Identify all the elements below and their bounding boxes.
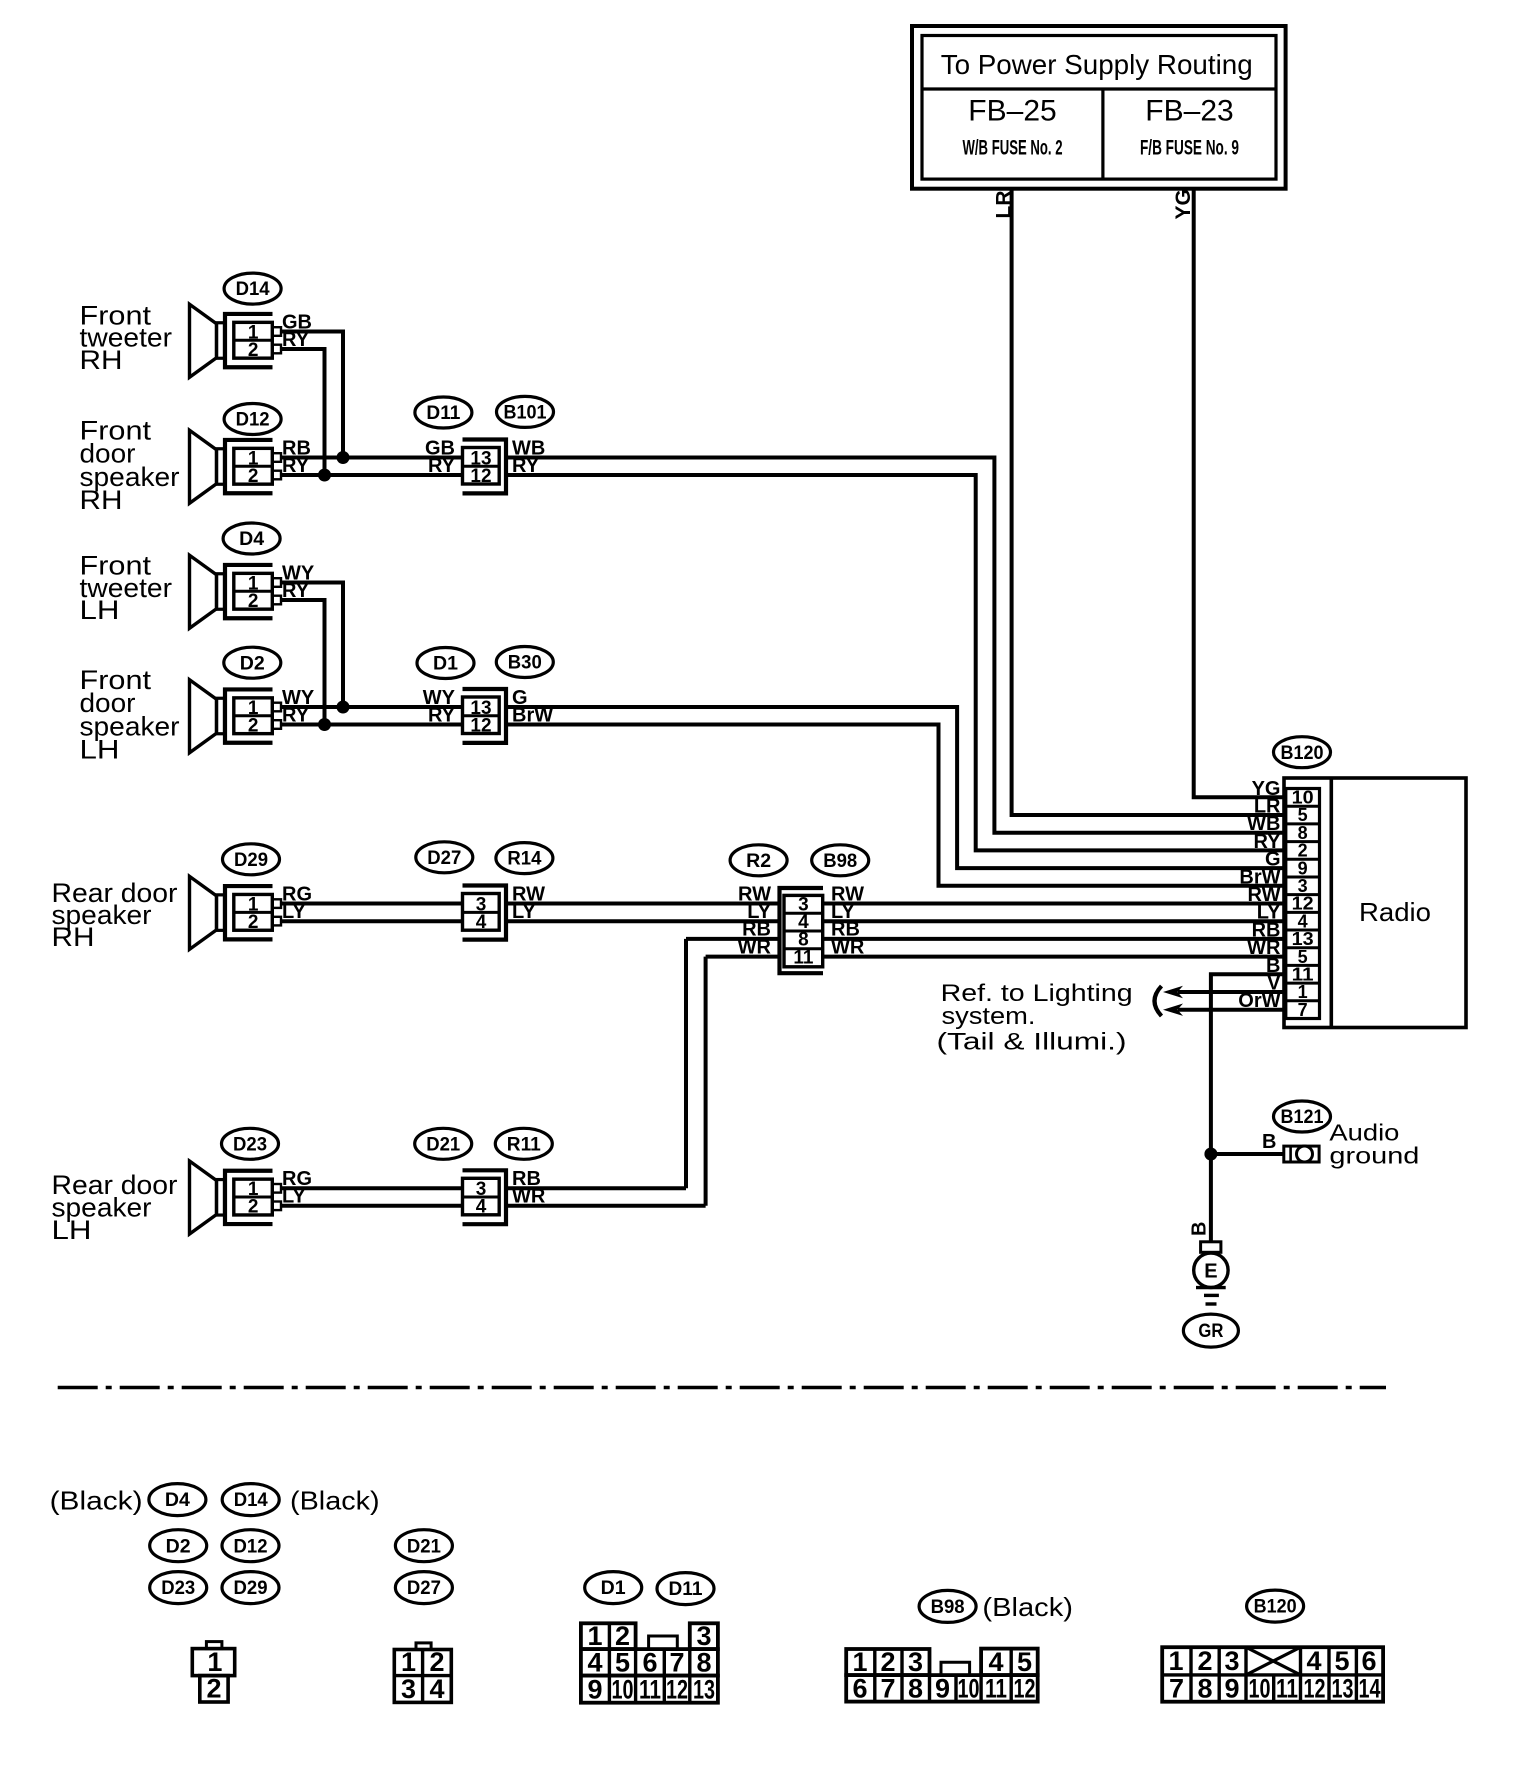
svg-text:B: B [1262, 1131, 1276, 1153]
svg-text:14: 14 [1359, 1674, 1381, 1704]
svg-text:13: 13 [1332, 1674, 1354, 1704]
svg-text:D12: D12 [234, 1536, 268, 1557]
svg-text:5: 5 [1334, 1646, 1349, 1676]
svg-text:B120: B120 [1281, 743, 1324, 764]
svg-text:(Black): (Black) [50, 1486, 143, 1516]
svg-text:10: 10 [958, 1674, 980, 1704]
svg-text:12: 12 [1304, 1674, 1326, 1704]
svg-text:D2: D2 [240, 653, 265, 674]
svg-text:6: 6 [852, 1674, 867, 1704]
svg-text:1: 1 [587, 1621, 602, 1651]
svg-text:1: 1 [1168, 1646, 1183, 1676]
svg-text:13: 13 [693, 1674, 715, 1704]
svg-text:D1: D1 [433, 654, 458, 675]
svg-text:2: 2 [248, 591, 259, 612]
svg-text:D4: D4 [239, 529, 264, 550]
svg-text:D27: D27 [427, 848, 461, 869]
svg-text:B120: B120 [1254, 1597, 1297, 1618]
svg-text:To Power Supply Routing: To Power Supply Routing [941, 49, 1253, 80]
svg-text:D14: D14 [236, 279, 270, 300]
svg-text:RH: RH [52, 922, 95, 952]
svg-text:LH: LH [80, 595, 120, 625]
svg-text:3: 3 [696, 1621, 711, 1651]
svg-text:12: 12 [666, 1674, 688, 1704]
svg-text:B: B [1189, 1222, 1211, 1236]
svg-text:ground: ground [1329, 1143, 1419, 1169]
svg-text:6: 6 [1361, 1646, 1376, 1676]
svg-text:D23: D23 [233, 1134, 267, 1155]
svg-text:1: 1 [401, 1647, 416, 1677]
svg-text:B30: B30 [508, 653, 542, 674]
svg-text:3: 3 [908, 1647, 923, 1677]
svg-text:2: 2 [248, 340, 259, 361]
svg-text:B98: B98 [931, 1597, 965, 1618]
svg-text:(Black): (Black) [982, 1592, 1073, 1622]
svg-text:system.: system. [942, 1003, 1036, 1030]
svg-text:3: 3 [401, 1674, 416, 1704]
svg-text:2: 2 [1197, 1646, 1212, 1676]
svg-text:11: 11 [1276, 1674, 1298, 1704]
svg-text:LR: LR [993, 191, 1016, 219]
svg-text:B121: B121 [1281, 1107, 1324, 1128]
svg-text:11: 11 [639, 1674, 661, 1704]
svg-text:7: 7 [1298, 1000, 1308, 1020]
svg-text:FB–23: FB–23 [1145, 94, 1233, 127]
svg-text:7: 7 [1169, 1674, 1184, 1704]
svg-text:D23: D23 [161, 1578, 195, 1599]
svg-text:12: 12 [470, 466, 491, 487]
svg-text:E: E [1204, 1261, 1217, 1283]
svg-text:4: 4 [429, 1674, 444, 1704]
svg-text:D11: D11 [426, 403, 460, 424]
svg-text:W/B FUSE No. 2: W/B FUSE No. 2 [963, 137, 1063, 160]
svg-text:D1: D1 [601, 1578, 626, 1599]
svg-text:LH: LH [80, 735, 120, 765]
svg-text:D21: D21 [426, 1134, 460, 1155]
svg-text:D4: D4 [165, 1490, 190, 1511]
svg-text:11: 11 [985, 1674, 1007, 1704]
svg-text:7: 7 [669, 1648, 684, 1678]
svg-text:9: 9 [1224, 1674, 1239, 1704]
svg-text:B98: B98 [823, 851, 857, 872]
svg-text:2: 2 [248, 1197, 259, 1218]
svg-text:D14: D14 [234, 1490, 268, 1511]
svg-text:FB–25: FB–25 [968, 94, 1056, 127]
svg-text:D12: D12 [236, 410, 270, 431]
svg-text:Radio: Radio [1359, 897, 1431, 927]
svg-text:D27: D27 [407, 1578, 441, 1599]
svg-text:4: 4 [587, 1648, 602, 1678]
svg-text:F/B FUSE No. 9: F/B FUSE No. 9 [1140, 137, 1239, 160]
svg-text:2: 2 [615, 1621, 630, 1651]
svg-text:4: 4 [988, 1647, 1003, 1677]
svg-text:12: 12 [470, 715, 491, 736]
svg-text:6: 6 [642, 1648, 657, 1678]
svg-text:12: 12 [1014, 1674, 1036, 1704]
svg-text:5: 5 [1017, 1647, 1032, 1677]
svg-text:2: 2 [429, 1647, 444, 1677]
svg-text:1: 1 [207, 1647, 222, 1677]
svg-text:GR: GR [1198, 1321, 1223, 1342]
svg-text:D29: D29 [234, 1578, 268, 1599]
svg-text:D29: D29 [234, 850, 268, 871]
svg-text:9: 9 [935, 1674, 950, 1704]
svg-text:4: 4 [1306, 1646, 1321, 1676]
svg-text:1: 1 [852, 1647, 867, 1677]
svg-text:4: 4 [476, 1197, 487, 1218]
svg-text:RH: RH [80, 485, 123, 515]
svg-text:2: 2 [206, 1674, 221, 1704]
svg-text:7: 7 [880, 1674, 895, 1704]
svg-text:8: 8 [908, 1674, 923, 1704]
svg-text:8: 8 [696, 1648, 711, 1678]
svg-text:(Black): (Black) [290, 1486, 380, 1516]
svg-text:YG: YG [1172, 189, 1195, 219]
svg-text:10: 10 [612, 1674, 634, 1704]
svg-text:R2: R2 [746, 851, 771, 872]
svg-text:R14: R14 [507, 849, 541, 870]
svg-text:8: 8 [1197, 1674, 1212, 1704]
svg-text:D2: D2 [166, 1536, 191, 1557]
svg-text:R11: R11 [507, 1134, 541, 1155]
svg-text:LH: LH [52, 1215, 92, 1245]
svg-text:D11: D11 [669, 1579, 703, 1600]
svg-text:D21: D21 [407, 1536, 441, 1557]
svg-text:4: 4 [476, 912, 487, 933]
svg-text:B101: B101 [504, 403, 547, 424]
svg-text:5: 5 [615, 1648, 630, 1678]
svg-text:2: 2 [880, 1647, 895, 1677]
svg-text:9: 9 [587, 1674, 602, 1704]
svg-text:3: 3 [1224, 1646, 1239, 1676]
svg-text:2: 2 [248, 715, 259, 736]
svg-text:2: 2 [248, 466, 259, 487]
svg-text:2: 2 [248, 912, 259, 933]
svg-text:11: 11 [793, 947, 814, 968]
svg-text:RH: RH [80, 345, 123, 375]
svg-text:(Tail & Illumi.): (Tail & Illumi.) [937, 1029, 1127, 1056]
svg-text:10: 10 [1249, 1674, 1271, 1704]
